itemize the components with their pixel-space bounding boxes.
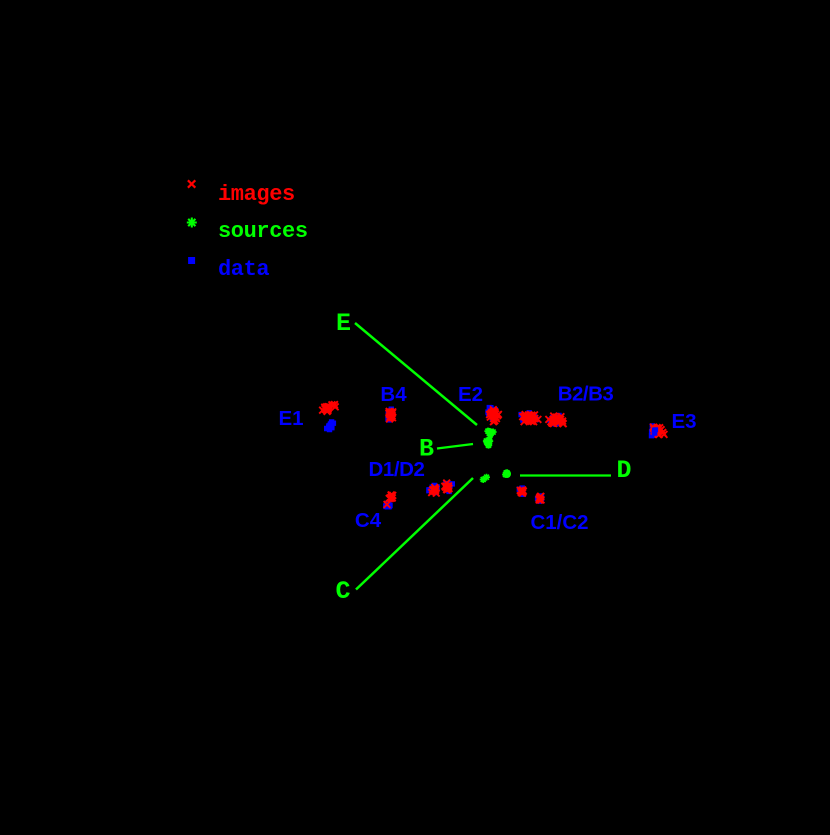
svg-text:D1/D2: D1/D2 [368,458,424,481]
C1/C2 image cluster b (red crosses) [536,493,545,503]
E3 data cluster front squares (blue over red) [652,427,659,436]
legend data marker (blue square) [188,257,195,264]
svg-text:B2/B3: B2/B3 [558,383,614,406]
line from E to source cluster [355,323,477,425]
svg-text:images: images [218,182,295,207]
svg-text:C1/C2: C1/C2 [530,511,588,534]
svg-text:E1: E1 [278,407,303,430]
legend images marker (red cross) [188,180,195,187]
legend data text [218,257,269,282]
label B4 (blue) [380,383,407,406]
legend sources text [218,219,308,244]
D source cluster (green asterisks) [502,469,511,478]
svg-text:E2: E2 [458,383,483,406]
svg-text:B4: B4 [380,383,407,406]
E3 data cluster (blue squares) [649,423,660,438]
C1/C2 image cluster a (red crosses) [517,487,527,497]
C4 data cluster (blue squares) [383,501,393,510]
E2 image cluster (red crosses) [486,406,502,425]
line from D to source cluster [520,474,611,476]
svg-text:E: E [336,309,351,338]
label E1 (blue) [278,407,303,430]
legend images text [218,182,295,207]
C4 stray image cross [384,501,391,508]
svg-text:D: D [616,456,631,485]
B4 data cluster (blue squares) [385,407,395,423]
svg-text:C: C [335,577,350,606]
E2 data cluster (blue squares) [485,405,498,422]
B2/B3 data cluster b (blue squares) [547,413,563,427]
label C1/C2 (blue) [530,511,588,534]
C4 image cluster (red crosses) [386,492,396,502]
legend sources marker (green asterisk) [187,218,197,228]
line from C to source cluster [356,478,473,590]
label B (green) [419,435,434,464]
svg-text:sources: sources [218,219,308,244]
B4 image cluster (red crosses) [386,408,397,422]
D1/D2 data cluster b (blue squares) [443,481,455,494]
label E2 (blue) [458,383,483,406]
label C (green) [335,577,350,606]
B2/B3 image cluster a (red crosses) [519,411,541,425]
B2/B3 data cluster a (blue squares) [518,410,539,423]
svg-text:E3: E3 [671,410,696,433]
label C4 (blue) [355,509,382,532]
B2/B3 image cluster b (red crosses) [545,413,566,427]
C source marker (green asterisks) [480,474,490,483]
label E (green) [336,309,351,338]
E1 data cluster (blue squares) [324,419,336,432]
label D1/D2 (blue) [368,458,424,481]
svg-text:C4: C4 [355,509,382,532]
D1/D2 data cluster a (blue squares) [426,483,440,495]
E3 image cluster (red crosses) [650,424,667,438]
D1/D2 image cluster a (red crosses) [428,484,439,496]
label D (green) [616,456,631,485]
D1/D2 image cluster b (red crosses) [442,480,453,493]
label E3 (blue) [671,410,696,433]
svg-text:data: data [218,257,269,282]
B source cluster (green asterisks) [483,428,497,449]
E1 image cluster (red crosses) [319,401,338,415]
C1/C2 data cluster a (blue squares) [517,485,526,497]
C1/C2 data cluster b (blue squares) [535,493,544,504]
label B2/B3 (blue) [558,383,614,406]
line from B to source cluster [437,444,473,449]
